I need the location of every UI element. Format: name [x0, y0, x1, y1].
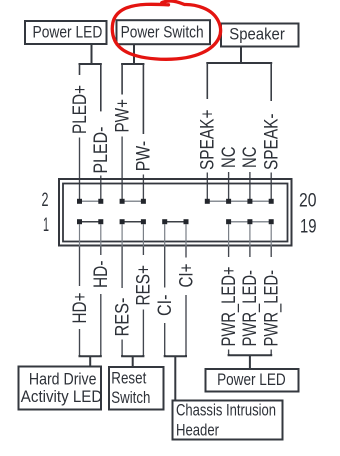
svg-text:Activity LED: Activity LED	[21, 387, 103, 406]
top row pin group line SPEAK	[207, 200, 271, 202]
svg-text:2: 2	[42, 190, 49, 211]
pin 16 square	[226, 199, 231, 204]
svg-text:PW+: PW+	[112, 99, 133, 133]
svg-text:Hard Drive: Hard Drive	[29, 369, 97, 388]
pin 15 square	[226, 219, 231, 224]
wire PW- upper	[142, 64, 144, 134]
svg-text:SPEAK-: SPEAK-	[262, 114, 283, 171]
bottom row pin group line PWR_LED	[229, 221, 272, 223]
wire PLED+ lower	[79, 138, 81, 200]
wire stem to Hard Drive box	[89, 356, 91, 366]
top row pin group line PLED	[80, 200, 101, 202]
pin 11 square	[184, 219, 189, 224]
wire CI+ below block	[185, 247, 187, 258]
wire CI+ to bar	[185, 295, 187, 356]
svg-text:19: 19	[300, 217, 317, 238]
wire PLED- upper	[100, 64, 102, 111]
svg-text:Power LED: Power LED	[33, 22, 103, 41]
wire PWR_LED+ to bar	[228, 350, 230, 355]
wire HD+ below block	[79, 247, 81, 287]
svg-text:CI+: CI+	[176, 264, 197, 288]
svg-text:HD-: HD-	[91, 261, 112, 289]
wire stem to Reset box	[132, 356, 134, 366]
wire HD- below block	[100, 247, 102, 256]
svg-text:NC: NC	[240, 147, 261, 169]
wire PLED+ upper	[79, 64, 81, 75]
wire PW+ lower	[121, 137, 123, 200]
pin 8 square	[141, 199, 146, 204]
pin 17 square	[247, 219, 252, 224]
pin 19 square	[269, 219, 274, 224]
svg-text:Chassis Intrusion: Chassis Intrusion	[176, 401, 276, 420]
svg-text:SPEAK+: SPEAK+	[198, 110, 219, 171]
wire NC 2 stub	[249, 172, 251, 199]
box Chassis Intrusion Header	[173, 401, 283, 440]
wire stem from Power Switch box	[133, 45, 135, 64]
wire PW+ upper	[121, 64, 123, 95]
wire RES- inside block	[121, 224, 123, 247]
wire RES- below block	[121, 247, 123, 289]
svg-text:PLED-: PLED-	[91, 126, 112, 173]
box Reset Switch	[109, 367, 164, 410]
wire PW- lower	[142, 175, 144, 200]
wire SPEAK+ lower	[206, 173, 208, 200]
wire HD+ inside block	[79, 224, 81, 247]
wire PLED- lower	[100, 176, 102, 200]
top row pin group line PW	[122, 200, 143, 202]
wire CI- inside block	[164, 224, 166, 247]
wire RES+ inside block	[142, 224, 144, 247]
wire HD- inside block	[100, 224, 102, 247]
wire HD+ to bar	[79, 329, 81, 356]
bottom row pin group line RES	[122, 221, 143, 223]
wire PWR_LED-a inside block	[249, 224, 251, 247]
pin 1 square	[77, 219, 82, 224]
svg-text:PWR_LED-: PWR_LED-	[240, 270, 261, 347]
wire bracket bar RES	[122, 355, 143, 356]
wire bracket bar HD	[80, 355, 101, 356]
pin 7 square	[141, 219, 146, 224]
wire SPEAK- upper	[270, 63, 272, 101]
wire RES- to bar	[121, 340, 123, 357]
svg-text:RES-: RES-	[112, 298, 133, 337]
wire bracket bar Power LED	[80, 64, 101, 65]
wire CI+ inside block	[185, 224, 187, 247]
svg-text:PLED+: PLED+	[70, 85, 91, 134]
red hand-drawn circle around Power Switch	[112, 1, 220, 59]
pin 3 square	[98, 219, 103, 224]
wire stem from Power LED box	[91, 45, 93, 64]
svg-text:Power Switch: Power Switch	[121, 23, 204, 42]
wire RES+ to bar	[142, 310, 144, 357]
wire SPEAK+ upper	[206, 63, 208, 99]
box Power Switch (top)	[117, 20, 211, 44]
pin 14 square	[205, 199, 210, 204]
wire CI- below block	[164, 247, 166, 288]
svg-text:HD+: HD+	[70, 293, 91, 324]
wire bracket bar Power Switch	[122, 64, 143, 65]
wire PWR_LED-b inside block	[270, 224, 272, 247]
svg-text:20: 20	[299, 191, 317, 212]
wire PWR_LED-b below block	[270, 247, 272, 258]
svg-text:CI-: CI-	[155, 295, 176, 317]
wire bracket bar Speaker	[207, 63, 271, 64]
box Hard Drive Activity LED	[19, 367, 103, 410]
wire bracket bar CI	[165, 355, 186, 356]
box Power LED (bottom)	[206, 369, 299, 392]
pin 5 square	[120, 219, 125, 224]
pin 6 square	[120, 199, 125, 204]
wire stem from Speaker box	[240, 47, 242, 63]
pin 18 square	[247, 199, 252, 204]
bottom row pin group line CI	[165, 221, 186, 223]
svg-text:PWR_LED+: PWR_LED+	[219, 267, 240, 347]
pin 20 square	[269, 199, 274, 204]
wire NC 1 stub	[228, 172, 230, 199]
wire PWR_LED+ below block	[228, 247, 230, 258]
wire SPEAK- lower	[270, 173, 272, 200]
svg-text:RES+: RES+	[134, 265, 155, 306]
pin 2 square	[77, 199, 82, 204]
svg-text:Power LED: Power LED	[217, 370, 286, 389]
wire RES+ below block	[142, 247, 144, 256]
wire PWR_LED-b to bar	[270, 350, 272, 355]
connector block outer rectangle	[59, 179, 292, 246]
svg-text:Header: Header	[176, 421, 219, 440]
svg-text:1: 1	[43, 215, 49, 236]
svg-text:Speaker: Speaker	[229, 25, 285, 44]
svg-text:Switch: Switch	[111, 388, 150, 407]
wire bracket bar PWR_LED	[229, 354, 272, 355]
wire CI- to bar	[164, 323, 166, 356]
box Speaker (top)	[221, 24, 299, 47]
wire PWR_LED+ inside block	[228, 224, 230, 247]
bottom row pin group line HD	[80, 221, 101, 223]
svg-text:NC: NC	[219, 147, 240, 169]
svg-text:Reset: Reset	[111, 369, 146, 388]
wire stem to Chassis box	[174, 356, 176, 400]
pin 4 square	[98, 199, 103, 204]
wire PWR_LED-a below block	[249, 247, 251, 258]
box Power LED (top)	[25, 21, 107, 44]
wire HD- to bar	[100, 294, 102, 356]
svg-text:PWR_LED-: PWR_LED-	[262, 270, 283, 347]
pin 9 square	[162, 219, 167, 224]
svg-text:PW-: PW-	[134, 141, 155, 172]
wire stem to Power LED bottom box	[249, 355, 251, 368]
connector block inner rectangle	[63, 184, 288, 242]
